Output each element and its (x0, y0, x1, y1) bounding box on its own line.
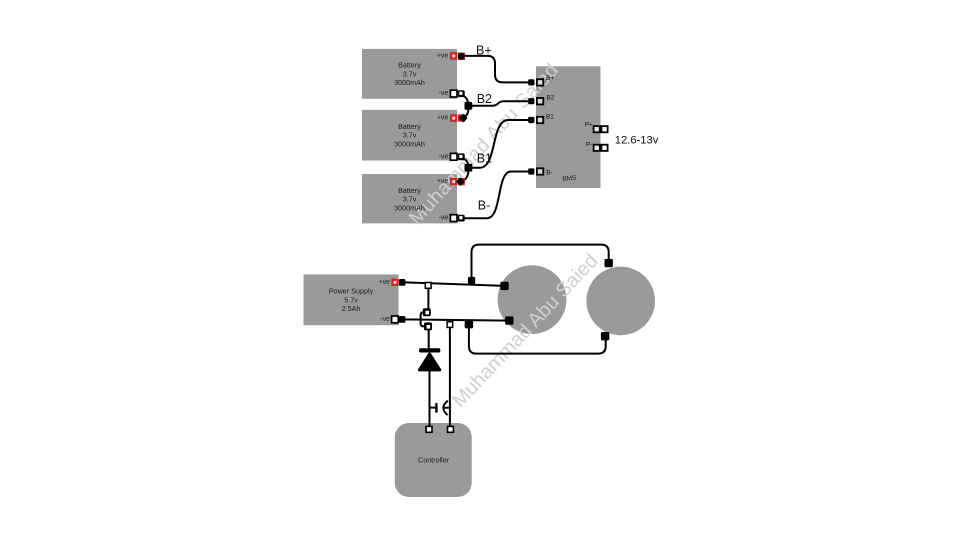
wire bat2- to node J2 (461, 158, 468, 168)
motor M2 body (586, 267, 655, 336)
motor M2 pin bottom (601, 332, 609, 340)
motor M1 body (498, 265, 567, 334)
node bottom loop junction (465, 320, 473, 328)
pin on negative rail (447, 322, 453, 328)
BMS pin P- (594, 145, 608, 151)
svg-text:3000mAh: 3000mAh (394, 203, 425, 212)
BMS U1 (546, 75, 593, 183)
node jog upper (423, 308, 431, 316)
battery BT3 body (362, 174, 457, 223)
pin controller 2 (448, 426, 454, 432)
svg-text:B2: B2 (547, 94, 555, 101)
pin bat2 +ve (450, 114, 457, 121)
battery BT1 body (362, 49, 457, 99)
wire end bat2- (458, 153, 465, 160)
wire jog (421, 312, 427, 326)
svg-text:+ve: +ve (437, 115, 449, 122)
svg-text:3.7v: 3.7v (403, 69, 417, 78)
motor M2 pin top (605, 259, 613, 267)
transistor Q1 (430, 401, 451, 414)
wire end bat2+ (458, 113, 468, 122)
battery BT2 body (362, 110, 457, 161)
svg-text:B1: B1 (477, 151, 492, 165)
power supply PS1 (329, 279, 390, 323)
svg-text:2.5Ah: 2.5Ah (342, 304, 361, 313)
wire bottom loop to motor M2 (469, 325, 606, 354)
wire drop from positive rail (427, 286, 429, 309)
BMS pin B- (537, 168, 543, 174)
svg-text:B+: B+ (476, 44, 492, 58)
wire B2 (468, 101, 531, 106)
svg-text:B+: B+ (546, 75, 554, 82)
wire B1 (468, 120, 531, 168)
battery BT1 (394, 52, 448, 97)
controller U2 body (395, 423, 472, 497)
power supply PS1 body (304, 274, 399, 325)
node top loop junction (468, 277, 475, 284)
wire J1 to bat2+ (462, 108, 468, 118)
wire end bat3- (458, 215, 465, 222)
svg-text:P+: P+ (585, 122, 593, 129)
BMS wire end B- (528, 168, 534, 174)
svg-text:+ve: +ve (437, 52, 449, 59)
BMS pin B+ (537, 79, 543, 85)
svg-text:+ve: +ve (378, 279, 390, 286)
svg-text:B1: B1 (546, 114, 554, 121)
wire end bat3+ (456, 177, 465, 186)
BMS wire end B+ (528, 79, 534, 85)
node jog lower (424, 322, 432, 330)
svg-text:5.7v: 5.7v (344, 295, 358, 304)
wire J2 to bat3+ (461, 170, 468, 182)
pin controller 1 (426, 426, 432, 432)
wire diode to controller (429, 371, 431, 427)
svg-text:+ve: +ve (437, 178, 449, 185)
svg-text:Controller: Controller (418, 456, 450, 465)
diode D1 (419, 348, 440, 370)
svg-text:12.6-13v: 12.6-13v (615, 134, 659, 146)
wire supply positive (402, 282, 505, 286)
pin bat3 -ve (450, 215, 457, 222)
svg-text:B2: B2 (477, 92, 492, 106)
pin bat1 -ve (450, 90, 457, 97)
svg-text:3000mAh: 3000mAh (394, 140, 425, 149)
wire to diode (428, 328, 430, 349)
pin PS +ve (391, 279, 398, 286)
svg-text:B-: B- (546, 170, 552, 177)
svg-text:B-: B- (478, 199, 491, 213)
wire end bat1- (458, 90, 465, 97)
svg-text:Battery: Battery (398, 122, 421, 131)
BMS U1 body (536, 66, 601, 188)
wire supply negative (402, 319, 509, 320)
battery BT2 (394, 115, 448, 161)
svg-text:-ve: -ve (439, 153, 449, 160)
pin drain on positive rail (425, 283, 431, 289)
svg-text:Battery: Battery (398, 61, 421, 70)
wire end bat1+ (458, 53, 465, 60)
svg-text:3.7v: 3.7v (403, 131, 417, 140)
wire B- (461, 172, 531, 219)
svg-text:-ve: -ve (439, 90, 449, 97)
motor M1 pin top (500, 282, 508, 290)
BMS wire end B2 (528, 98, 534, 104)
BMS wire end B1 (528, 117, 534, 123)
battery BT3 (394, 178, 448, 222)
svg-text:P-: P- (586, 141, 592, 148)
pin bat3 +ve (450, 178, 457, 185)
pin bat1 +ve (450, 52, 457, 59)
controller U2 (418, 456, 450, 465)
svg-text:3000mAh: 3000mAh (394, 78, 425, 87)
wire bat1- to node J1 (461, 95, 468, 106)
node J1 (465, 102, 473, 110)
BMS pin P+ (594, 126, 608, 132)
wire end PS+ (399, 279, 406, 286)
pin PS -ve (392, 316, 399, 323)
wire end PS- (399, 316, 406, 323)
wire top loop to motor M2 (472, 245, 609, 283)
svg-text:3.7v: 3.7v (403, 195, 417, 204)
BMS pin B2 (537, 98, 543, 104)
node J2 (465, 164, 473, 172)
wire B+ (465, 56, 532, 83)
svg-text:Power Supply: Power Supply (329, 287, 374, 296)
BMS pin B1 (537, 117, 543, 123)
svg-text:Battery: Battery (398, 186, 421, 195)
pin bat2 -ve (450, 153, 457, 160)
motor M1 pin bottom (505, 316, 513, 324)
svg-text:-ve: -ve (439, 215, 449, 222)
wire right drop to controller (449, 323, 451, 427)
svg-text:-ve: -ve (380, 316, 390, 323)
